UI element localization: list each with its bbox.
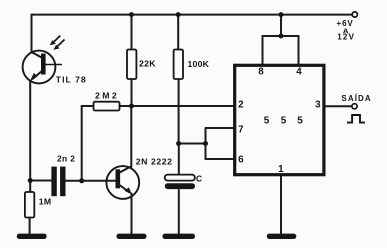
ground below 555 pin 1 [267, 234, 297, 239]
svg-text:2: 2 [238, 100, 244, 111]
ground below 2N2222 emitter [117, 234, 147, 239]
wire 2n2 to 2N2222 base [66, 180, 115, 182]
wire 22K top stub [131, 15, 133, 50]
svg-text:5: 5 [281, 115, 287, 126]
svg-text:SAÍDA: SAÍDA [341, 94, 371, 103]
svg-text:2M2: 2M2 [95, 91, 119, 101]
wire capacitor C to ground [178, 190, 180, 234]
power terminal +6V..12V [352, 12, 357, 17]
wire pin 7 lead [206, 127, 234, 129]
node junction dot 2n2/2M2 [79, 178, 84, 183]
svg-text:1: 1 [278, 164, 284, 175]
wire 2M2 left stub [82, 105, 94, 107]
capacitor C2 "C" top plate (curved/hollow) [165, 175, 195, 181]
wire left column bottom (TIL78 emitter down) [29, 81, 31, 193]
transistor Q2 emitter diagonal with arrow [120, 185, 130, 192]
wire bracket vertical pins 7-6 [205, 128, 207, 159]
wire base row: node to 2n2 [30, 180, 52, 182]
transistor Q2 base bar [116, 169, 121, 188]
svg-text:2n 2: 2n 2 [57, 153, 75, 163]
svg-text:6: 6 [238, 155, 244, 166]
output terminal SAIDA [352, 104, 357, 109]
light arrow 1 into TIL78 [53, 36, 60, 43]
wire 100K top stub [177, 15, 179, 50]
wire node to capacitor C [178, 144, 180, 175]
svg-text:+6V: +6V [337, 19, 354, 28]
svg-text:TIL 78: TIL 78 [56, 74, 87, 84]
svg-text:3: 3 [315, 100, 321, 111]
wire 2N2222 emitter vertical [131, 194, 133, 235]
wire pin 3 output lead [325, 105, 352, 107]
node junction dot emitter/1M [28, 178, 33, 183]
transistor Q2 2N2222 body circle [106, 166, 139, 199]
ground below capacitor C [163, 234, 196, 239]
svg-text:C: C [196, 173, 202, 183]
wire 1M bottom stub [29, 218, 31, 235]
node junction dot bridge mid [279, 34, 284, 39]
capacitor C1 2n2 plates [51, 167, 56, 197]
wire pin 4 lead [298, 36, 300, 66]
transistor Q1 emitter diagonal with arrow [33, 71, 43, 80]
ground below 1M [17, 234, 47, 239]
svg-text:7: 7 [238, 125, 244, 136]
light arrow 2 into TIL78 [57, 40, 64, 47]
wire pin2 row (2M2 right to IC pin 2) [120, 105, 234, 107]
wire pin 8 lead [262, 36, 264, 66]
node junction dot rail-22K [129, 12, 134, 17]
transistor Q1 base bar [41, 54, 46, 75]
wire bridge pins 8-4 [263, 35, 299, 37]
svg-text:5: 5 [297, 115, 303, 126]
capacitor C2 bottom plate (solid) [165, 183, 195, 189]
resistor R1 22K [127, 50, 136, 80]
node junction dot rail-100K [176, 12, 181, 17]
wire top supply rail [32, 14, 355, 16]
svg-text:1M: 1M [39, 196, 52, 206]
wire node to 555 bracket [179, 143, 206, 145]
transistor Q1 TIL78 body circle [23, 51, 56, 84]
node junction dot 100K/C [176, 141, 181, 146]
wire pin 1 to ground [280, 175, 282, 235]
node junction dot rail-supply drop [279, 12, 284, 17]
node junction dot bracket [203, 141, 208, 146]
resistor R3 2M2 [94, 102, 120, 111]
wire 2N2222 collector vertical [130, 106, 132, 167]
wire vertical 2M2 left leg [81, 106, 83, 181]
svg-text:4: 4 [296, 67, 302, 78]
svg-text:5: 5 [264, 115, 270, 126]
node junction dot collector/pin2 [129, 104, 134, 109]
wire 22K bottom stub [131, 79, 133, 107]
wire left column top (TIL78 collector to rail) [31, 15, 33, 53]
svg-text:12V: 12V [337, 33, 355, 42]
transistor Q2 collector diagonal [120, 166, 132, 172]
op-amp U1 555 timer body [235, 65, 324, 174]
pulse waveform symbol [347, 115, 365, 123]
svg-text:2N 2222: 2N 2222 [136, 157, 173, 167]
wire 100K bottom to node [178, 79, 180, 144]
wire supply drop to bridge [280, 15, 282, 36]
wire pin 6 lead [206, 158, 234, 160]
svg-text:22K: 22K [139, 59, 156, 69]
svg-text:100K: 100K [188, 59, 210, 69]
resistor R2 100K [174, 50, 183, 80]
transistor Q1 base lead (unconnected) [46, 64, 63, 66]
svg-text:8: 8 [258, 67, 264, 78]
resistor R4 1M [25, 192, 34, 218]
transistor Q1 collector diagonal [32, 52, 43, 58]
